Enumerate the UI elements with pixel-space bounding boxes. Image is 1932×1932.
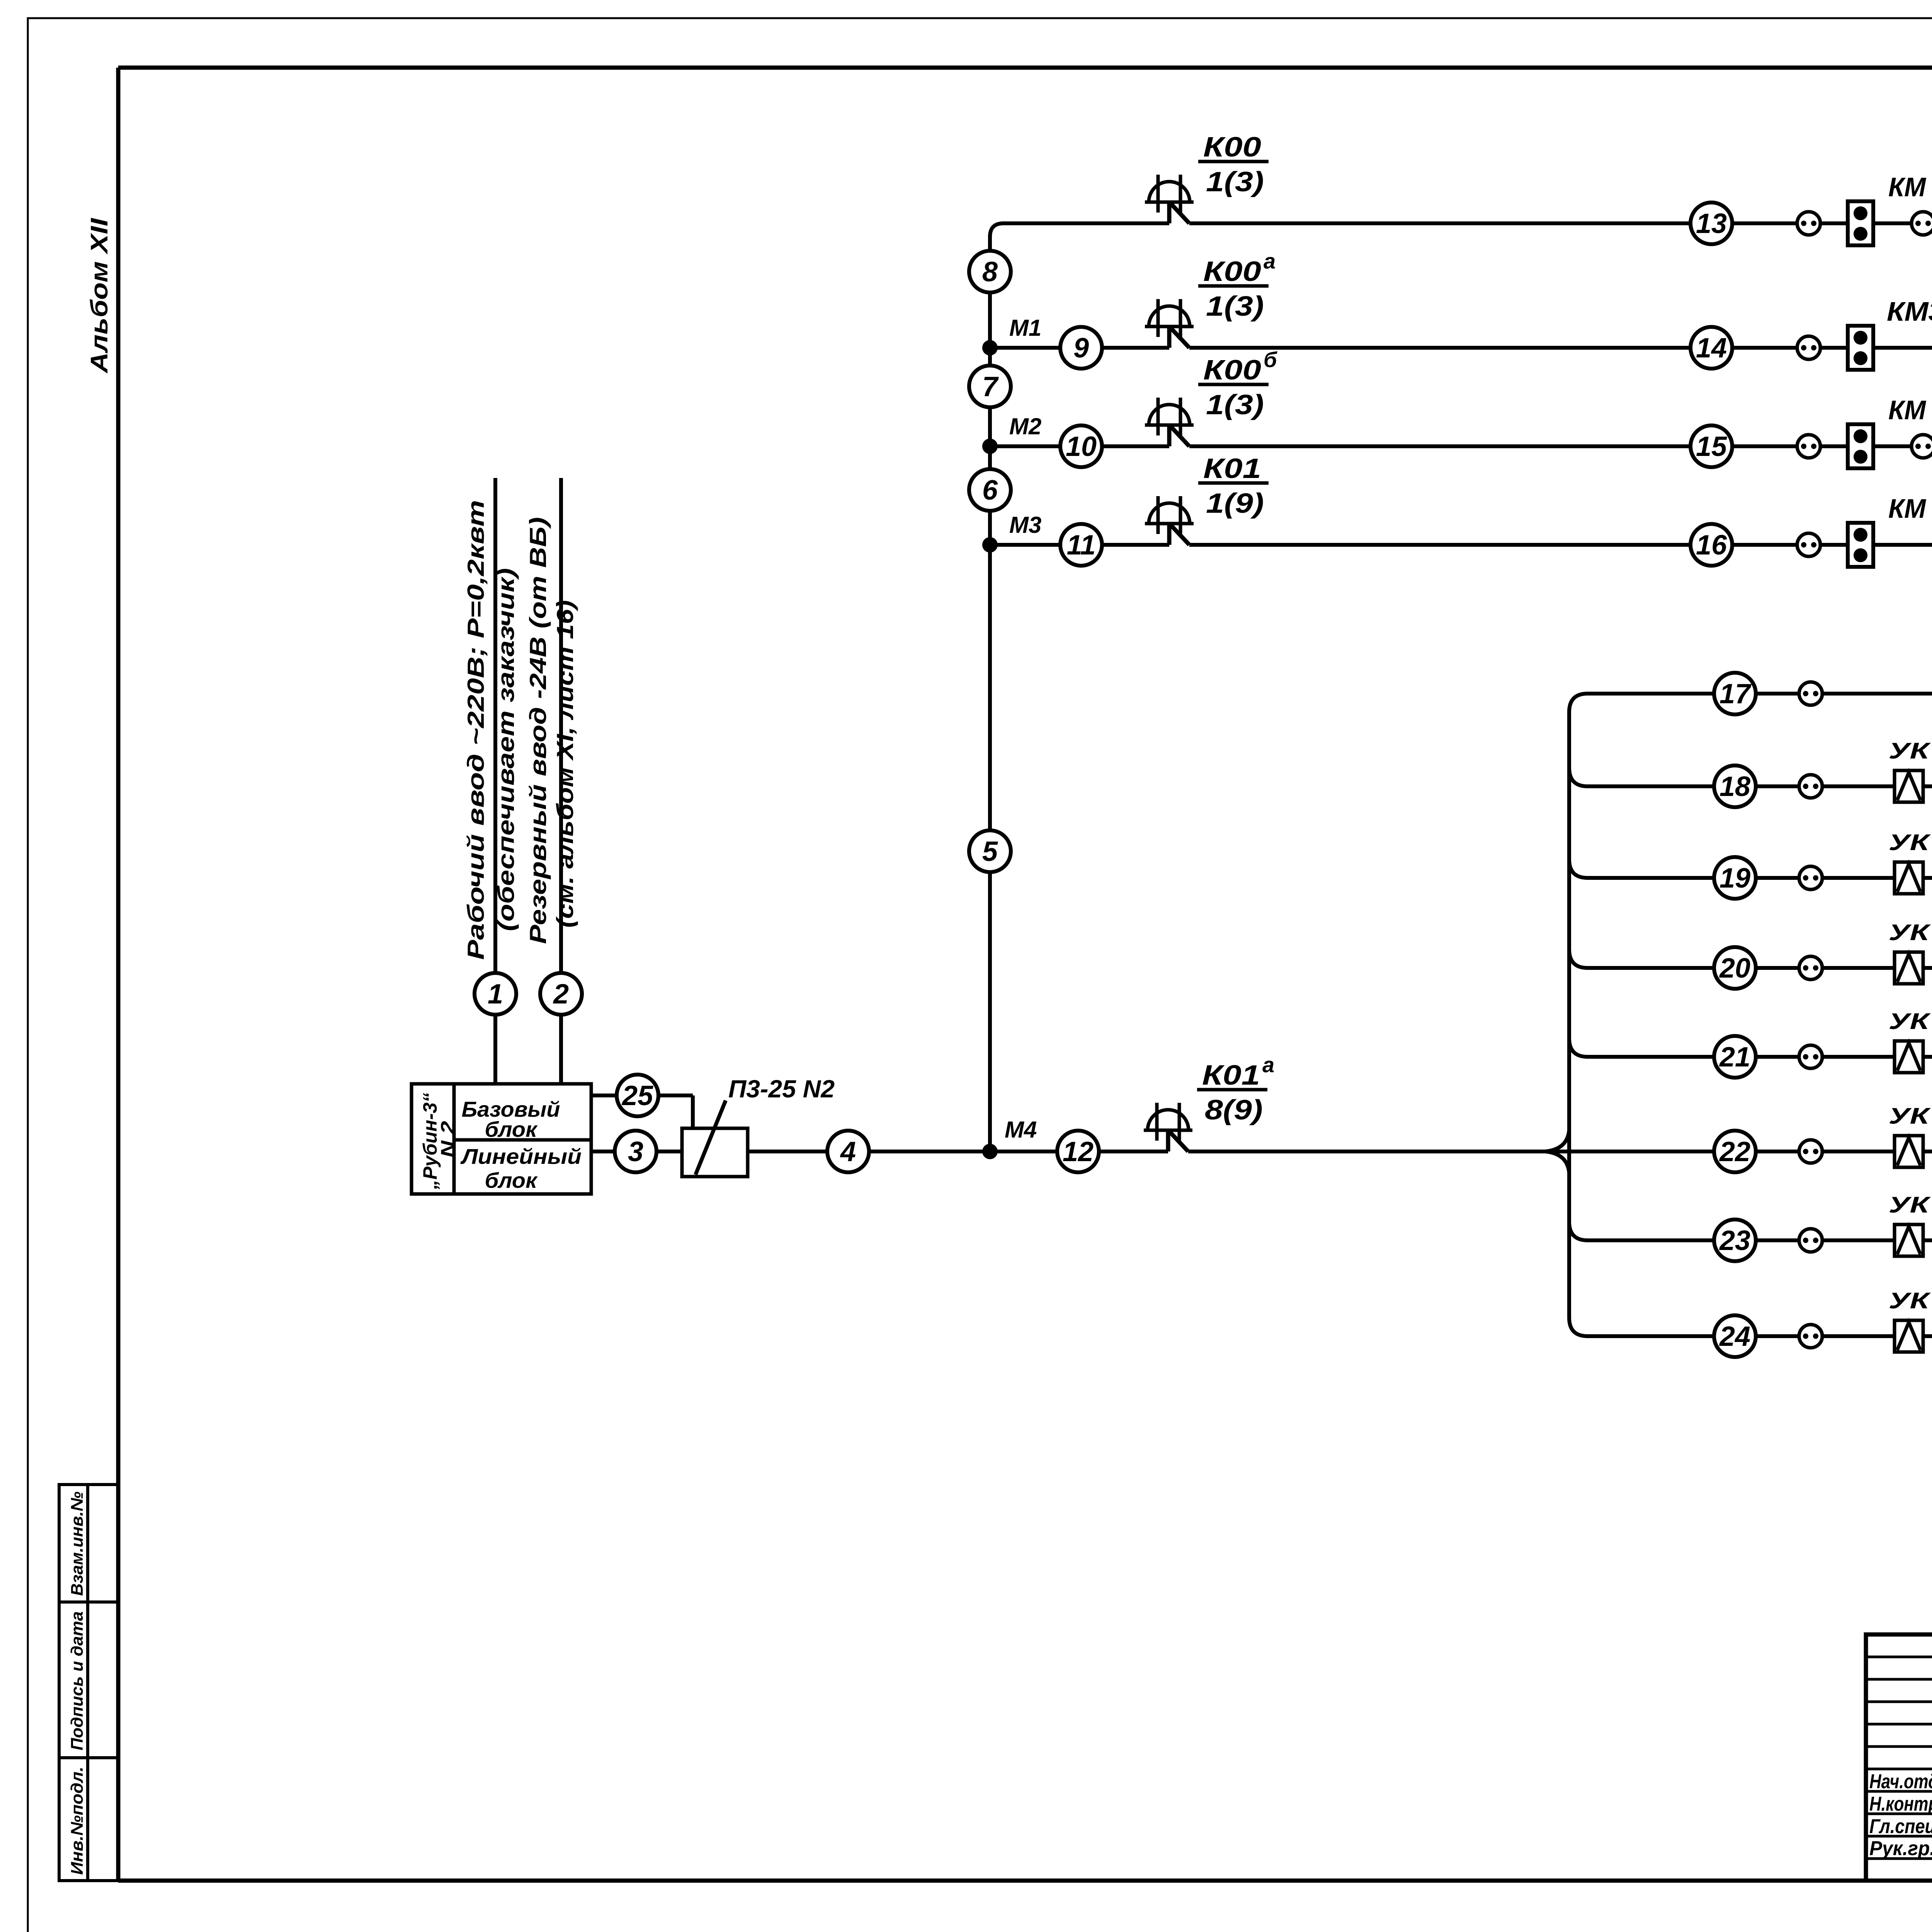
svg-text:13: 13 [1696,208,1727,239]
title block frame [1866,1634,1932,1881]
circle 11 [1060,524,1102,566]
svg-text:УК: УК [1889,920,1931,945]
wire input 2 [559,478,563,1084]
socket луч 11 a [1797,336,1820,359]
box УК луч 7 [1895,770,1923,802]
svg-text:К01: К01 [1203,453,1261,484]
circle 17 [1714,673,1756,714]
bus branch луч 6 [1569,859,1588,878]
svg-text:КМ 34: КМ 34 [1888,395,1932,425]
bus wire [1569,694,1588,1336]
box УК луч 3 [1895,1136,1923,1167]
svg-text:К00: К00 [1203,256,1261,287]
label К01 1(9) [1198,481,1269,485]
label К00 1(3) [1198,160,1269,163]
svg-text:КМ35: КМ35 [1887,296,1932,327]
circle 4 [827,1131,869,1172]
svg-text:а: а [1264,249,1276,273]
box П3-25 [682,1128,748,1177]
junction M3 [982,537,998,553]
svg-text:блок: блок [485,1168,538,1192]
svg-text:19: 19 [1719,863,1750,894]
svg-text:25: 25 [621,1080,653,1111]
svg-text:Рук.гр.: Рук.гр. [1869,1837,1932,1860]
box УК луч 1 [1895,1320,1923,1352]
circle 3 [615,1131,656,1172]
socket луч 12 b [1912,212,1932,235]
svg-text:6: 6 [982,475,998,506]
svg-text:20: 20 [1719,953,1750,984]
луч 7 wire [1586,784,1932,788]
socket луч 1 a [1799,1325,1822,1348]
svg-text:УК: УК [1889,1192,1931,1218]
луч 1 wire [1586,1334,1932,1338]
svg-text:1: 1 [488,979,503,1010]
siren К01а [1148,1110,1189,1130]
socket луч 5 a [1799,956,1822,980]
box КМ37 [1848,201,1873,245]
svg-text:9: 9 [1073,333,1089,364]
svg-text:УК: УК [1889,738,1931,764]
svg-text:УК: УК [1889,1104,1931,1129]
svg-text:8: 8 [982,257,998,287]
bus branch луч 2 [1569,1222,1588,1240]
circle 19 [1714,857,1756,899]
svg-text:(обеспечивает заказчик): (обеспечивает заказчик) [493,568,519,931]
circle 10 [1060,425,1102,467]
circle 2 [540,973,582,1015]
circle 5 [969,830,1011,872]
svg-text:24: 24 [1719,1321,1750,1352]
svg-text:15: 15 [1696,431,1727,462]
svg-text:12: 12 [1063,1136,1094,1167]
junction M2 [982,439,998,454]
circle 14 [1690,327,1732,369]
svg-text:УК: УК [1889,1288,1931,1313]
circle 12 [1057,1131,1099,1172]
луч 6 wire [1586,876,1932,880]
bus branch луч 4 [1569,1038,1588,1057]
луч 11 wire [990,346,1169,350]
circle 8 [969,251,1011,293]
svg-text:2: 2 [553,979,569,1010]
svg-text:17: 17 [1719,679,1752,709]
wire 25 [591,1094,693,1097]
siren К00б [1149,405,1190,425]
bus branch луч 7 [1569,768,1588,786]
svg-text:Гл.спец.: Гл.спец. [1869,1815,1932,1838]
svg-text:К00: К00 [1203,132,1261,163]
socket луч 10 b [1912,435,1932,458]
wire 3 [591,1150,682,1153]
svg-text:УК: УК [1889,1009,1931,1034]
svg-text:N 2: N 2 [437,1121,459,1158]
socket луч 6 a [1799,866,1822,889]
box УК луч 2 [1895,1225,1923,1256]
wire 4 [748,1150,990,1153]
siren К00 [1149,182,1190,202]
луч 12 wire [990,223,1169,348]
circle 9 [1060,327,1102,369]
svg-text:блок: блок [485,1117,538,1141]
svg-text:(см. альбом ХI, лист 16): (см. альбом ХI, лист 16) [552,600,578,928]
svg-text:а: а [1262,1053,1274,1077]
junction M1 [982,340,998,355]
svg-text:КМ 32: КМ 32 [1888,493,1932,524]
siren К00а [1149,306,1190,327]
луч 10 wire [990,444,1169,448]
svg-text:М3: М3 [1009,512,1041,538]
socket луч 12 a [1797,212,1820,235]
circle 25 [617,1075,658,1116]
socket луч 3 a [1799,1140,1822,1163]
svg-text:5: 5 [982,836,998,867]
socket луч 7 a [1799,775,1822,798]
siren К01 [1149,503,1190,524]
svg-text:11: 11 [1067,530,1096,561]
svg-text:УК: УК [1889,830,1931,855]
socket луч 10 a [1797,435,1820,458]
svg-text:Подпись и дата: Подпись и дата [68,1611,87,1750]
svg-text:М2: М2 [1009,413,1041,439]
луч 8 wire [1586,692,1932,696]
title block left rows [1866,1656,1932,1658]
bus junction луч 3 [1546,1130,1569,1173]
label К00а 1(3) [1198,284,1269,288]
junction M4 [982,1144,998,1159]
circle 7 [969,366,1011,407]
circle 1 [474,973,516,1015]
svg-text:23: 23 [1719,1225,1750,1256]
diagonal П3-25 [696,1100,726,1175]
луч 4 wire [1586,1055,1932,1059]
svg-text:Н.контр.: Н.контр. [1869,1793,1932,1815]
circle 18 [1714,765,1756,807]
label К00б 1(3) [1198,383,1269,386]
circle 24 [1714,1315,1756,1357]
socket луч 9 a [1797,533,1820,556]
circle 15 [1690,425,1732,467]
box КМ32 [1848,523,1873,567]
svg-text:18: 18 [1719,771,1750,802]
луч 5 wire [1586,966,1932,970]
svg-text:П3-25 N2: П3-25 N2 [728,1075,835,1103]
svg-text:Взам.инв.№: Взам.инв.№ [68,1492,87,1596]
svg-text:Инв.№подл.: Инв.№подл. [68,1767,87,1875]
svg-text:М1: М1 [1009,315,1041,341]
socket луч 4 a [1799,1045,1822,1068]
svg-text:3: 3 [628,1136,643,1167]
svg-text:1(3): 1(3) [1206,167,1264,197]
frame inner [118,66,1932,70]
svg-text:22: 22 [1719,1136,1750,1167]
svg-text:К01: К01 [1202,1060,1260,1091]
socket луч 8 a [1799,682,1822,705]
box УК луч 6 [1895,862,1923,894]
svg-text:7: 7 [982,371,999,402]
svg-text:8(9): 8(9) [1205,1095,1263,1126]
svg-text:Резервный ввод -24В (от ВБ): Резервный ввод -24В (от ВБ) [525,517,551,944]
circle 22 [1714,1131,1756,1172]
луч 3 feed wire [990,1150,1168,1153]
box КМ35 [1848,326,1873,370]
block Рубин-3 [412,1084,591,1194]
box УК луч 4 [1895,1041,1923,1073]
svg-text:21: 21 [1719,1042,1750,1073]
svg-text:1(3): 1(3) [1206,389,1264,420]
label К01а 8(9) [1197,1088,1267,1092]
луч 3 wire [1569,1150,1932,1153]
circle 13 [1690,202,1732,244]
svg-text:1(9): 1(9) [1206,488,1264,519]
svg-text:К00: К00 [1203,355,1261,386]
box КМ34 [1848,424,1873,468]
wire input 1 [493,478,497,1084]
circle 20 [1714,947,1756,989]
svg-text:б: б [1264,347,1277,372]
луч 2 wire [1586,1238,1932,1242]
trunk wire [988,348,992,1151]
svg-text:Рабочий ввод ~220В; Р=0,2квт: Рабочий ввод ~220В; Р=0,2квт [463,500,489,960]
box УК луч 5 [1895,952,1923,984]
svg-text:10: 10 [1066,431,1097,462]
svg-text:Альбом XII: Альбом XII [86,218,113,374]
svg-text:М4: М4 [1005,1117,1037,1143]
margin stamp table [59,1485,118,1881]
circle 23 [1714,1219,1756,1261]
circle 21 [1714,1036,1756,1078]
bus branch луч 5 [1569,949,1588,968]
circle 6 [969,469,1011,511]
svg-text:14: 14 [1696,333,1727,364]
svg-text:16: 16 [1696,530,1727,561]
луч 9 wire [990,543,1169,547]
svg-text:Линейный: Линейный [460,1144,582,1168]
socket луч 2 a [1799,1229,1822,1252]
svg-text:1(3): 1(3) [1206,291,1264,322]
svg-text:Нач.отд.: Нач.отд. [1869,1770,1932,1793]
svg-text:4: 4 [840,1136,856,1167]
svg-text:КМ 37: КМ 37 [1888,172,1932,202]
circle 16 [1690,524,1732,566]
